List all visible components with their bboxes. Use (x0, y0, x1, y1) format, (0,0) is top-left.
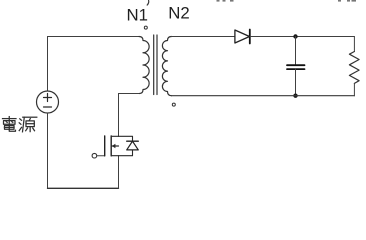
wire left rail lower (source - down) (47, 113, 49, 189)
svg-text:N2: N2 (168, 3, 189, 22)
transistor Q1 gate terminal circle (92, 153, 97, 158)
wire MOSFET drain vertical (118, 94, 120, 137)
transformer T1 secondary winding N2 (162, 37, 171, 96)
voltage source V1 circle (37, 91, 59, 113)
transistor Q1 body stub with arrow (111, 145, 118, 147)
junction node top (293, 34, 297, 38)
wire primary bottom to drain (119, 93, 140, 95)
transformer polarity dot primary (144, 26, 147, 29)
wire resistor bottom lead (353, 83, 355, 95)
transformer polarity dot secondary (172, 103, 175, 106)
wire resistor top lead (353, 37, 355, 52)
wire capacitor top lead (295, 37, 297, 66)
diode D1 triangle (235, 30, 250, 43)
transformer core line 2 (156, 35, 158, 95)
wire secondary bottom rail (172, 95, 355, 97)
svg-text:N1: N1 (127, 6, 148, 25)
wire capacitor bottom lead (295, 69, 297, 96)
transformer T1 primary winding N1 (139, 37, 149, 94)
wire top-left (source + to primary top) (48, 36, 140, 38)
cropped comma remnant above N1 (147, 1, 149, 6)
voltage source plus sign (44, 94, 52, 102)
wire diode to output top (250, 36, 354, 38)
diode D1 cathode bar (249, 30, 251, 44)
cropped text remnants top edge (217, 0, 357, 2)
body diode top link (119, 136, 133, 141)
glyph 源 (20, 119, 22, 121)
body diode bottom link (119, 150, 133, 156)
transistor Q1 gate bar (104, 136, 106, 156)
transistor Q1 source stub (111, 155, 118, 157)
transformer core line 1 (153, 35, 155, 95)
voltage source minus sign (44, 106, 52, 108)
transistor Q1 channel bar (110, 136, 112, 156)
glyph 電 (3, 118, 17, 120)
transistor Q1 gate lead (97, 155, 105, 157)
capacitor C1 top plate (287, 64, 305, 66)
capacitor C1 bottom plate (287, 68, 305, 70)
resistor R1 zigzag (349, 52, 359, 84)
wire bottom rail (to MOSFET source) (48, 187, 119, 189)
label 電源 (hand-drawn glyphs) (3, 117, 37, 132)
body diode cathode bar (127, 140, 139, 142)
body diode triangle (127, 141, 139, 150)
wire secondary top to diode (172, 36, 235, 38)
wire left rail upper (down to source) (47, 37, 49, 92)
transistor Q1 drain stub (111, 135, 118, 137)
transistor Q1 arrow head (112, 144, 116, 148)
junction node bottom (293, 94, 297, 98)
wire MOSFET source vertical (118, 156, 120, 189)
